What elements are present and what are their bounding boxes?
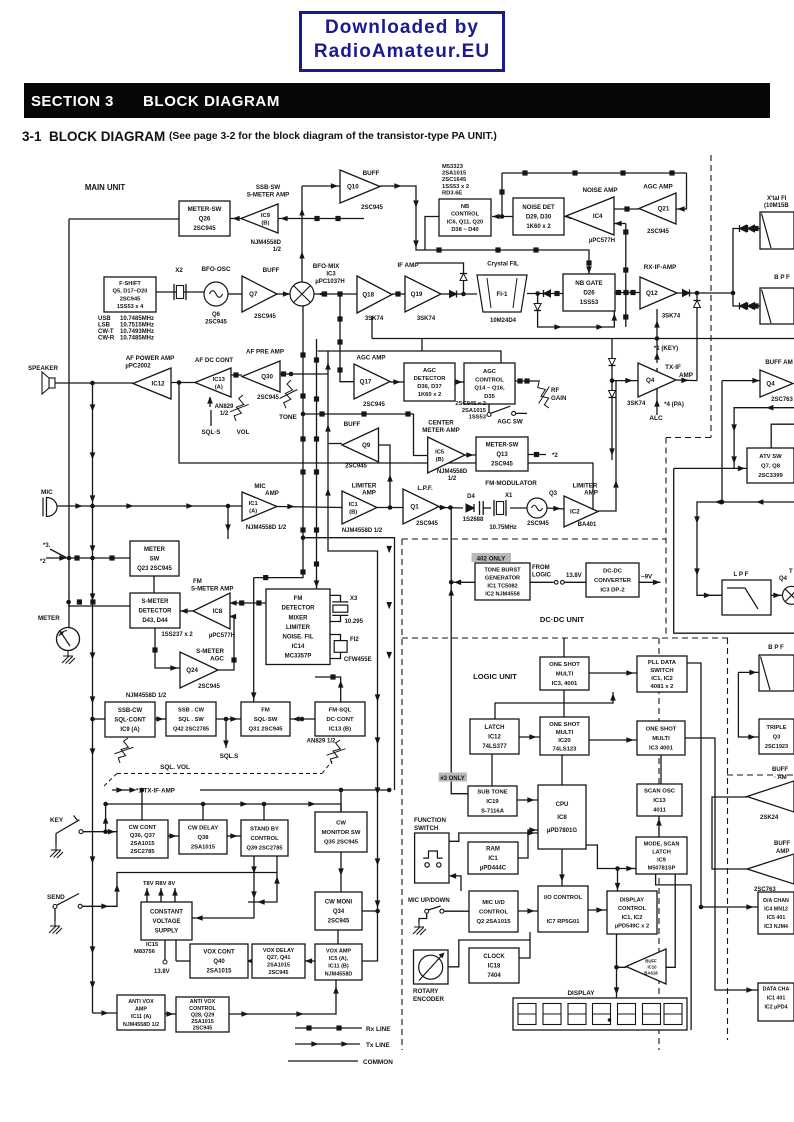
svg-text:µPD549C x 2: µPD549C x 2	[615, 923, 649, 929]
svg-text:IC19: IC19	[486, 799, 499, 805]
svg-text:IC15: IC15	[146, 942, 159, 948]
svg-text:D43, D44: D43, D44	[142, 618, 168, 624]
svg-text:RD3.6E: RD3.6E	[442, 190, 462, 196]
svg-text:7404: 7404	[487, 973, 501, 979]
svg-text:SEND: SEND	[47, 894, 65, 901]
svg-text:µPD7801G: µPD7801G	[547, 827, 578, 834]
svg-text:S-METER: S-METER	[142, 599, 170, 605]
svg-text:IC1: IC1	[249, 501, 259, 507]
svg-text:IC13: IC13	[213, 377, 226, 383]
svg-text:MULTI: MULTI	[556, 730, 574, 736]
svg-text:X3: X3	[350, 596, 358, 602]
svg-text:AGC: AGC	[483, 369, 497, 375]
svg-text:I/O CONTROL: I/O CONTROL	[544, 895, 582, 901]
svg-text:M53323: M53323	[442, 164, 464, 170]
svg-text:AMP: AMP	[362, 490, 376, 497]
svg-text:LIMITER: LIMITER	[573, 483, 598, 490]
svg-text:SPEAKER: SPEAKER	[28, 365, 58, 372]
svg-text:BUFF: BUFF	[263, 267, 280, 274]
svg-text:· AM: · AM	[774, 775, 787, 781]
svg-text:(10M15B: (10M15B	[764, 203, 789, 209]
svg-text:µPC577H: µPC577H	[209, 633, 235, 639]
svg-text:3SK74: 3SK74	[662, 314, 681, 320]
svg-text:MULTI: MULTI	[652, 736, 670, 742]
svg-text:Q4: Q4	[779, 576, 788, 582]
svg-text:IC14: IC14	[292, 644, 305, 650]
svg-text:µPD444C: µPD444C	[480, 866, 507, 872]
svg-text:Q13: Q13	[496, 452, 508, 458]
svg-text:2SC945: 2SC945	[527, 521, 549, 527]
svg-text:NOISE AMP: NOISE AMP	[582, 187, 617, 194]
svg-text:2SK24: 2SK24	[760, 815, 779, 821]
svg-text:10.7485MHz: 10.7485MHz	[120, 316, 154, 322]
svg-text:IC6, Q11, Q20: IC6, Q11, Q20	[447, 219, 483, 225]
svg-text:ONE SHOT: ONE SHOT	[646, 727, 677, 733]
svg-text:Q42 2SC2785: Q42 2SC2785	[173, 726, 209, 732]
svg-text:SQL.S: SQL.S	[220, 753, 239, 760]
svg-text:SQL·S: SQL·S	[202, 429, 221, 436]
svg-text:AN829 1/2: AN829 1/2	[307, 739, 336, 745]
svg-text:D/A CHAN: D/A CHAN	[763, 898, 789, 904]
svg-text:1/2: 1/2	[220, 411, 229, 417]
svg-text:SUPPLY: SUPPLY	[155, 929, 178, 935]
svg-text:D35: D35	[484, 394, 495, 400]
svg-text:Q19: Q19	[411, 291, 423, 298]
svg-text:ENCODER: ENCODER	[413, 996, 444, 1003]
svg-text:2SC2785: 2SC2785	[130, 849, 155, 855]
svg-text:Q24: Q24	[186, 667, 198, 674]
svg-text:CONTROL: CONTROL	[618, 906, 647, 912]
svg-text:−9V: −9V	[641, 574, 653, 581]
svg-text:4081 x 2: 4081 x 2	[651, 684, 675, 690]
svg-text:SUB TONE: SUB TONE	[477, 790, 507, 796]
svg-text:*1 (KEY): *1 (KEY)	[654, 345, 678, 352]
svg-text:NB GATE: NB GATE	[575, 280, 602, 287]
svg-text:2SA1015: 2SA1015	[206, 969, 232, 975]
svg-text:CENTER: CENTER	[428, 420, 454, 427]
svg-text:X'tal FI: X'tal FI	[767, 196, 787, 202]
svg-text:Q36, Q37: Q36, Q37	[130, 833, 155, 839]
svg-text:RF: RF	[551, 387, 559, 394]
svg-text:LSB: LSB	[98, 323, 111, 329]
svg-text:IC3 DP-2: IC3 DP-2	[600, 588, 625, 594]
svg-text:2SC763: 2SC763	[754, 887, 776, 893]
svg-text:BUFF: BUFF	[774, 841, 790, 847]
svg-text:AF POWER AMP: AF POWER AMP	[126, 355, 175, 362]
svg-text:IC3, 4001: IC3, 4001	[552, 681, 578, 687]
svg-text:NJM4558D: NJM4558D	[325, 971, 353, 977]
svg-text:MIXER: MIXER	[288, 615, 308, 621]
svg-text:SQL. VOL: SQL. VOL	[160, 764, 190, 771]
svg-text:BUFF: BUFF	[344, 421, 361, 428]
svg-text:2SC945: 2SC945	[491, 462, 513, 468]
svg-text:IC4: IC4	[593, 213, 603, 220]
svg-text:BUFF: BUFF	[772, 767, 788, 773]
svg-text:2SC945 x 2: 2SC945 x 2	[455, 401, 486, 407]
svg-text:PLL DATA: PLL DATA	[648, 660, 677, 666]
svg-text:IC10: IC10	[647, 965, 657, 970]
svg-text:GAIN: GAIN	[551, 395, 567, 402]
svg-text:*1 TX·IF·AMP: *1 TX·IF·AMP	[136, 788, 175, 795]
svg-text:IC5: IC5	[435, 449, 445, 455]
svg-text:IC9: IC9	[261, 213, 271, 219]
svg-text:CONTROL: CONTROL	[451, 212, 480, 218]
svg-text:ANTI VOX: ANTI VOX	[128, 999, 154, 1005]
svg-text:FUNCTION: FUNCTION	[414, 817, 446, 824]
svg-text:STAND BY: STAND BY	[250, 826, 279, 832]
svg-text:ANTI VOX: ANTI VOX	[190, 999, 216, 1005]
svg-text:74LS123: 74LS123	[553, 746, 578, 752]
svg-text:BFO·OSC: BFO·OSC	[201, 266, 230, 273]
svg-text:CONSTANT: CONSTANT	[150, 910, 183, 916]
svg-text:IC2 µPD4: IC2 µPD4	[764, 1004, 787, 1010]
svg-text:MAIN UNIT: MAIN UNIT	[85, 183, 126, 192]
svg-text:VOX AMP: VOX AMP	[326, 949, 351, 955]
svg-text:IC20: IC20	[558, 738, 571, 744]
svg-text:1SS53: 1SS53	[469, 415, 487, 421]
svg-text:CPU: CPU	[556, 801, 569, 808]
svg-text:D26: D26	[583, 290, 595, 297]
svg-text:1K60 x 2: 1K60 x 2	[526, 224, 551, 230]
svg-text:L P F: L P F	[734, 571, 749, 578]
svg-text:2SA1015: 2SA1015	[130, 841, 155, 847]
svg-text:IC9 (A): IC9 (A)	[120, 727, 139, 733]
svg-text:13.8V: 13.8V	[154, 969, 170, 975]
svg-text:B P F: B P F	[768, 644, 784, 651]
svg-text:CLOCK: CLOCK	[483, 954, 505, 960]
svg-text:Q40: Q40	[213, 959, 225, 965]
svg-text:DC-DC: DC-DC	[603, 569, 623, 575]
svg-text:2SC945: 2SC945	[363, 402, 385, 408]
svg-text:2SC945: 2SC945	[257, 395, 279, 401]
svg-text:IC13 (B): IC13 (B)	[329, 727, 351, 733]
svg-text:AGC: AGC	[423, 368, 437, 374]
svg-text:MONITOR SW: MONITOR SW	[322, 830, 361, 836]
svg-text:FM·SQL: FM·SQL	[329, 708, 352, 714]
svg-text:Q31 2SC945: Q31 2SC945	[248, 727, 283, 733]
svg-text:TX·IF: TX·IF	[665, 364, 681, 371]
svg-text:2SA1015: 2SA1015	[191, 845, 216, 851]
svg-text:Q34: Q34	[333, 909, 345, 915]
svg-text:2SC763: 2SC763	[771, 397, 793, 403]
svg-text:D29, D30: D29, D30	[526, 215, 552, 221]
svg-text:Q7, Q8: Q7, Q8	[761, 464, 781, 470]
svg-text:M50781SP: M50781SP	[648, 865, 676, 871]
svg-text:AGC SW: AGC SW	[497, 419, 523, 426]
svg-text:Q17: Q17	[360, 379, 372, 386]
svg-text:(B): (B)	[436, 457, 444, 463]
svg-text:2SC1923: 2SC1923	[765, 744, 788, 750]
svg-text:NOISE DET: NOISE DET	[522, 205, 555, 211]
svg-text:BUFF: BUFF	[363, 170, 380, 177]
svg-text:Crystal FIL: Crystal FIL	[487, 261, 519, 268]
svg-text:BUFF: BUFF	[645, 959, 657, 964]
svg-text:*2: *2	[552, 452, 558, 459]
svg-text:AGC AMP: AGC AMP	[357, 355, 386, 362]
svg-text:LOGIC UNIT: LOGIC UNIT	[473, 672, 517, 681]
svg-text:CONTROL: CONTROL	[475, 377, 504, 383]
svg-text:NJM4558D: NJM4558D	[251, 240, 282, 246]
svg-text:IC18: IC18	[488, 964, 501, 970]
svg-text:Q35 2SC945: Q35 2SC945	[324, 840, 359, 846]
svg-text:COMMON: COMMON	[363, 1059, 393, 1066]
svg-text:(A): (A)	[215, 384, 223, 390]
svg-text:AGC: AGC	[210, 656, 224, 663]
svg-text:SSB-CW: SSB-CW	[118, 708, 143, 714]
svg-text:IC1: IC1	[349, 502, 359, 508]
svg-text:NJM4558D 1/2: NJM4558D 1/2	[342, 528, 383, 534]
svg-text:RX·IF-AMP: RX·IF-AMP	[644, 264, 677, 271]
svg-text:IC11 (A): IC11 (A)	[131, 1014, 151, 1020]
svg-text:3SK74: 3SK74	[365, 316, 384, 322]
svg-text:KEY: KEY	[50, 817, 64, 824]
svg-text:SQL·SW: SQL·SW	[254, 717, 278, 723]
svg-text:2SC945: 2SC945	[345, 464, 367, 470]
svg-text:IC3: IC3	[326, 272, 336, 278]
svg-text:FM: FM	[294, 596, 303, 602]
svg-text:FM·MODULATOR: FM·MODULATOR	[485, 480, 537, 487]
svg-text:METER·SW: METER·SW	[486, 443, 519, 449]
svg-text:Q3: Q3	[773, 734, 780, 740]
svg-text:S-METER: S-METER	[196, 648, 224, 655]
svg-text:NOISE. FIL: NOISE. FIL	[282, 634, 313, 640]
svg-text:FROM: FROM	[532, 565, 550, 571]
svg-text:CFW455E: CFW455E	[344, 657, 372, 663]
svg-text:CW-R: CW-R	[98, 336, 115, 342]
svg-text:402 ONLY: 402 ONLY	[477, 555, 507, 562]
svg-text:IC12: IC12	[488, 735, 501, 741]
svg-text:TRIPLE: TRIPLE	[767, 725, 787, 731]
svg-text:MC3357P: MC3357P	[285, 654, 312, 660]
svg-text:µPC1037H: µPC1037H	[315, 279, 344, 285]
svg-text:1SS53 x 2: 1SS53 x 2	[442, 184, 469, 190]
svg-text:Q28, Q29: Q28, Q29	[191, 1012, 214, 1018]
svg-text:TONE: TONE	[279, 414, 297, 421]
svg-text:1/2: 1/2	[448, 476, 457, 482]
svg-text:Q3: Q3	[549, 491, 558, 497]
svg-text:DATA CHA: DATA CHA	[763, 986, 790, 992]
svg-text:1S2688: 1S2688	[463, 517, 484, 523]
svg-text:AF PRE AMP: AF PRE AMP	[246, 349, 284, 356]
svg-text:Q30: Q30	[261, 374, 273, 381]
svg-text:VOL: VOL	[237, 429, 250, 436]
svg-text:M83756: M83756	[134, 949, 156, 955]
svg-text:LATCH: LATCH	[485, 725, 505, 731]
svg-text:SSB . CW: SSB . CW	[178, 707, 205, 713]
svg-text:IC12: IC12	[152, 381, 166, 388]
svg-text:VOLTAGE: VOLTAGE	[152, 919, 180, 925]
svg-text:VOX DELAY: VOX DELAY	[263, 948, 295, 954]
svg-text:Q39 2SC2785: Q39 2SC2785	[246, 845, 282, 851]
svg-text:LIMITER: LIMITER	[352, 483, 377, 490]
svg-text:2SC945: 2SC945	[361, 205, 383, 211]
svg-text:FI-1: FI-1	[496, 291, 508, 298]
svg-text:BFO·MIX: BFO·MIX	[313, 263, 340, 270]
svg-text:S-METER AMP: S-METER AMP	[247, 192, 289, 199]
svg-text:CONTROL: CONTROL	[189, 1006, 216, 1012]
svg-text:SSB·SW: SSB·SW	[256, 184, 281, 191]
svg-text:DC·DC UNIT: DC·DC UNIT	[540, 615, 585, 624]
svg-text:2SC3399: 2SC3399	[758, 473, 783, 479]
svg-text:1SS53: 1SS53	[580, 299, 599, 306]
svg-text:2SC945: 2SC945	[193, 225, 216, 232]
svg-text:10.7485MHz: 10.7485MHz	[120, 336, 154, 342]
svg-text:Q6: Q6	[212, 312, 221, 318]
svg-text:2SC945: 2SC945	[198, 684, 220, 690]
svg-text:2SC945: 2SC945	[120, 296, 141, 302]
svg-text:SWITCH: SWITCH	[414, 825, 439, 832]
svg-text:IC11 (B): IC11 (B)	[328, 964, 349, 970]
svg-text:3SK74: 3SK74	[417, 316, 436, 322]
svg-text:2SA1015: 2SA1015	[191, 1019, 213, 1025]
svg-text:GENERATOR: GENERATOR	[485, 575, 520, 581]
svg-text:Q38: Q38	[198, 835, 210, 841]
svg-text:Q9: Q9	[362, 442, 371, 449]
svg-text:VOX CONT: VOX CONT	[203, 950, 235, 956]
svg-text:Q14 ~ Q16,: Q14 ~ Q16,	[474, 386, 505, 392]
svg-text:Q27, Q41: Q27, Q41	[267, 955, 291, 961]
svg-text:D38 ~ D40: D38 ~ D40	[451, 227, 478, 233]
svg-text:Q18: Q18	[362, 292, 374, 299]
svg-text:IC13: IC13	[653, 798, 666, 804]
svg-text:IC8: IC8	[213, 608, 223, 615]
svg-text:RAM: RAM	[486, 847, 500, 853]
svg-text:DISPLAY: DISPLAY	[567, 990, 595, 997]
svg-text:IC1, IC2: IC1, IC2	[622, 915, 643, 921]
svg-text:MODE, SCAN: MODE, SCAN	[644, 841, 680, 847]
svg-text:METER·SW: METER·SW	[188, 206, 222, 213]
svg-text:2SC945: 2SC945	[193, 1026, 212, 1032]
svg-text:AMP: AMP	[776, 849, 789, 855]
svg-text:AMP: AMP	[584, 490, 598, 497]
svg-text:(B): (B)	[261, 220, 269, 226]
svg-text:X2: X2	[175, 267, 183, 274]
svg-text:10.75MHz: 10.75MHz	[489, 525, 516, 531]
svg-text:(A): (A)	[249, 508, 257, 514]
svg-text:DISPLAY: DISPLAY	[620, 898, 644, 904]
svg-text:MULTI: MULTI	[556, 672, 574, 678]
svg-text:ONE SHOT: ONE SHOT	[549, 662, 580, 668]
svg-text:AF DC CONT: AF DC CONT	[195, 357, 233, 364]
svg-text:ROTARY: ROTARY	[413, 988, 439, 995]
svg-text:CW DELAY: CW DELAY	[188, 826, 219, 832]
svg-text:10M24D4: 10M24D4	[490, 318, 517, 324]
svg-text:METER·AMP: METER·AMP	[422, 427, 459, 434]
svg-text:IC1 TC5082: IC1 TC5082	[487, 583, 517, 589]
svg-text:FM: FM	[261, 708, 270, 714]
svg-text:LIMITER: LIMITER	[286, 625, 311, 631]
svg-text:D4: D4	[467, 494, 475, 500]
svg-text:NJM4558D 1/2: NJM4558D 1/2	[246, 525, 287, 531]
svg-text:AN829: AN829	[215, 404, 234, 410]
svg-text:CW-T: CW-T	[98, 329, 114, 335]
svg-text:(B): (B)	[349, 509, 357, 515]
svg-text:CONVERTER: CONVERTER	[594, 578, 632, 584]
svg-text:SQL·CONT: SQL·CONT	[114, 718, 146, 724]
svg-text:T8V R8V 8V: T8V R8V 8V	[143, 881, 175, 887]
svg-text:10.295: 10.295	[345, 619, 364, 625]
svg-text:IC2: IC2	[570, 509, 580, 516]
svg-text:Q4: Q4	[766, 381, 775, 388]
svg-text:MIC UP/DOWN: MIC UP/DOWN	[408, 898, 450, 904]
svg-text:SQL . SW: SQL . SW	[178, 717, 204, 723]
svg-text:B P F: B P F	[774, 274, 790, 281]
svg-text:*2: *2	[40, 559, 46, 565]
svg-text:IC5 (A),: IC5 (A),	[329, 956, 349, 962]
svg-text:CONTROL: CONTROL	[250, 836, 279, 842]
svg-text:NB: NB	[461, 204, 469, 210]
svg-text:2SC945: 2SC945	[647, 229, 669, 235]
svg-text:DETECTOR: DETECTOR	[414, 376, 447, 382]
svg-text:NJM4558D: NJM4558D	[437, 469, 468, 475]
svg-text:2SC945: 2SC945	[416, 521, 438, 527]
svg-text:MIC: MIC	[41, 489, 53, 496]
svg-text:1K60 x 2: 1K60 x 2	[418, 392, 442, 398]
svg-text:L.P.F.: L.P.F.	[417, 485, 433, 492]
svg-text:µPC2002: µPC2002	[125, 364, 151, 370]
svg-text:Q10: Q10	[347, 184, 359, 191]
svg-text:2SC945: 2SC945	[328, 919, 350, 925]
svg-text:METER: METER	[144, 547, 166, 553]
svg-text:LATCH: LATCH	[652, 849, 671, 855]
svg-text:ONE SHOT: ONE SHOT	[549, 722, 580, 728]
svg-text:*4 (PA): *4 (PA)	[664, 401, 684, 408]
svg-text:74LS377: 74LS377	[482, 744, 507, 750]
svg-text:NJM4558D 1/2: NJM4558D 1/2	[123, 1022, 159, 1028]
svg-text:2SA1015: 2SA1015	[462, 408, 487, 414]
svg-text:IC1 401: IC1 401	[767, 995, 786, 1001]
svg-text:IC8: IC8	[557, 814, 567, 821]
svg-text:13.8V: 13.8V	[566, 573, 582, 579]
svg-text:TONE BURST: TONE BURST	[484, 567, 521, 573]
svg-text:S-7116A: S-7116A	[481, 809, 505, 815]
svg-text:Tx LINE: Tx LINE	[366, 1042, 391, 1049]
svg-text:2SC945: 2SC945	[269, 970, 289, 976]
svg-text:3SK74: 3SK74	[627, 401, 646, 407]
svg-text:2SC1645: 2SC1645	[442, 177, 467, 183]
svg-text:IC1, IC2: IC1, IC2	[651, 676, 673, 682]
svg-text:T: T	[789, 569, 793, 575]
svg-text:10.7493MHz: 10.7493MHz	[120, 329, 154, 335]
svg-text:USB: USB	[98, 316, 111, 322]
svg-text:X1: X1	[505, 493, 513, 499]
svg-text:Q2 2SA1015: Q2 2SA1015	[476, 919, 511, 925]
svg-text:IC1: IC1	[488, 856, 498, 862]
svg-text:METER: METER	[38, 615, 60, 622]
svg-text:Q12: Q12	[646, 290, 658, 297]
svg-text:10.7515MHz: 10.7515MHz	[120, 323, 154, 329]
svg-text:FI2: FI2	[350, 637, 359, 643]
svg-text:2SC945: 2SC945	[205, 320, 227, 326]
svg-text:AMP: AMP	[679, 372, 693, 379]
svg-text:MIC: MIC	[254, 483, 266, 490]
svg-text:ALC: ALC	[649, 415, 663, 422]
svg-text:DETECTOR: DETECTOR	[282, 606, 316, 612]
svg-text:AMP: AMP	[265, 490, 279, 497]
svg-text:2SC945: 2SC945	[254, 314, 276, 320]
svg-text:SWITCH: SWITCH	[650, 668, 673, 674]
svg-text:Q21: Q21	[658, 206, 670, 213]
svg-text:Q23 2SC945: Q23 2SC945	[137, 566, 172, 572]
svg-text:1/2: 1/2	[273, 247, 282, 253]
svg-text:1SS237 x 2: 1SS237 x 2	[161, 632, 193, 638]
svg-text:ATV SW: ATV SW	[759, 454, 782, 460]
svg-text:Q4: Q4	[646, 377, 655, 384]
svg-text:IC3 4001: IC3 4001	[649, 746, 674, 752]
svg-text:IC2 NJM4558: IC2 NJM4558	[485, 591, 520, 597]
svg-text:IC4 MN12: IC4 MN12	[764, 907, 788, 913]
svg-text:*3.: *3.	[43, 543, 51, 549]
